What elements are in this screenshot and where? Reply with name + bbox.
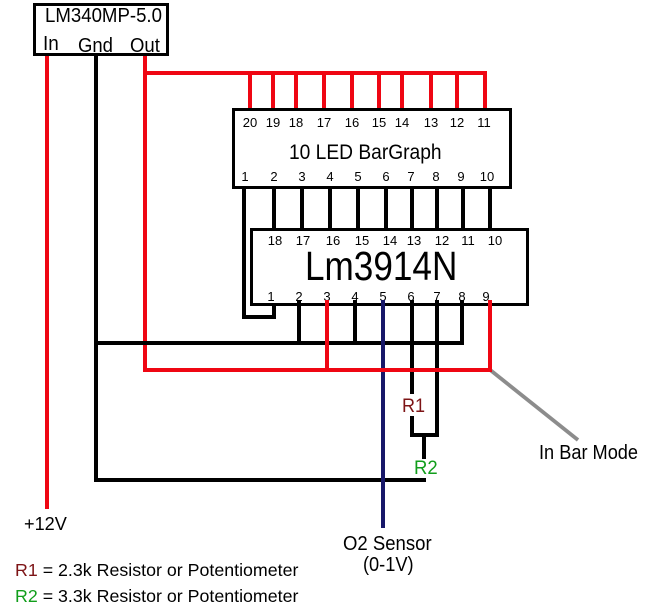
wire: red stub to bargraph pin 11 [483,71,487,110]
label: LM340MP-5.0 [45,6,162,26]
wire: top red bus feeding bargraph anodes [143,71,487,75]
label: In Bar Mode [539,443,638,463]
wire: lower red bus horizontal [143,368,492,372]
wire: bargraph pin 1 cathode wrap-around to LM3914 pin 1 [242,189,246,319]
wire: Gnd black vertical from LM340 Gnd pin [94,54,98,482]
wire: LM3914 pin 5 blue signal to O2 sensor [381,300,385,528]
wire: ground bus horizontal [94,341,464,345]
label: 10 LED BarGraph [289,142,442,163]
wire: LM3914 pin 2 to ground bus [297,300,301,345]
wire: bottom ground return horizontal [94,478,426,482]
wire: bargraph pin 9 to LM3914 pin 11 [461,189,465,228]
LM3914 bottom pin numbers 1..9 [267,290,274,303]
wire: LM3914 pin 4 to ground bus [353,300,357,345]
wire: red stub to bargraph pin 15 [377,71,381,110]
wire: red stub to bargraph pin 14 [400,71,404,110]
wire: red stub to bargraph pin 17 [322,71,326,110]
bargraph bottom pin numbers 1..10 [241,170,248,183]
wire: red stub to bargraph pin 13 [429,71,433,110]
wire: bargraph pin 3 to LM3914 pin 17 [300,189,304,228]
pin label: Out [130,36,160,56]
wire: red stub to bargraph pin 20 [248,71,252,110]
wire: bargraph pin 5 to LM3914 pin 15 [356,189,360,228]
wire: Out red vertical from LM340 Out pin down to lower red bus [143,54,147,372]
wire: bargraph pin 2 to LM3914 pin 18 [272,189,276,228]
driver U2 Lm3914N box [250,228,529,306]
label: (0-1V) [363,555,414,575]
wire: LM3914 pin 6 upper segment (to R1) [410,300,414,394]
wire: LM3914 pin 7 down to R1 bottom [435,300,439,437]
wire: LM3914 pin 9 red to lower red bus end [488,300,492,372]
label: R1 resistor designator [402,397,425,416]
pin label: Gnd [78,36,113,56]
wire: R1 bottom horizontal joining pin6/pin7 [410,433,439,437]
legend: R2 value [15,588,298,606]
wire: LM3914 pin 3 red to lower red bus [325,300,329,372]
label: Lm3914N [305,246,457,287]
bargraph top pin numbers 20..11 [243,116,257,129]
wire: bargraph pin 6 to LM3914 pin 14 [384,189,388,228]
wire: red stub to bargraph pin 19 [271,71,275,110]
label: R2 resistor designator [414,459,438,478]
wire: bargraph pin 10 to LM3914 pin 10 [488,189,492,228]
label: O2 Sensor [343,534,432,554]
wire: bargraph pin 8 to LM3914 pin 12 [435,189,439,228]
pin label: In [43,34,59,54]
label: +12V [24,515,67,533]
wire: +12V red vertical from LM340 In pin [45,54,49,509]
wire: LM3914 pin 8 to ground bus [460,300,464,345]
wire: red stub to bargraph pin 16 [350,71,354,110]
wire: red stub to bargraph pin 18 [294,71,298,110]
regulator U1 LM340MP-5.0 box [33,3,169,56]
wire: stub from R1 bottom to R2 [422,437,426,459]
wire: gray pointer line to In Bar Mode [485,365,585,445]
legend: R1 value [15,562,298,580]
wire: bargraph pin 7 to LM3914 pin 13 [410,189,414,228]
LED bargraph DS1 box [232,108,512,189]
wire: red stub to bargraph pin 12 [455,71,459,110]
LM3914 top pin numbers 18..10 [268,234,282,247]
wire: LM3914 pin 6 lower segment (below R1 label) [410,416,414,437]
wire: bargraph pin 4 to LM3914 pin 16 [328,189,332,228]
